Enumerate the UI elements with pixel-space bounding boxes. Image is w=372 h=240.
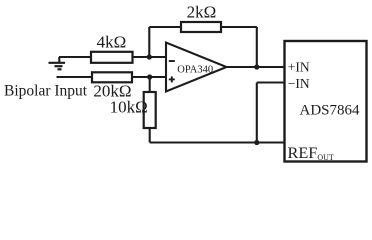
wire: feedback vertical down to op-amp output (256, 27, 258, 67)
node: inverting input junction (147, 54, 152, 59)
svg-text:ADS7864: ADS7864 (299, 102, 360, 118)
ADC U2 ADS7864 box (285, 41, 367, 162)
op-amp inverting input minus sign (169, 60, 175, 62)
svg-text:+IN: +IN (288, 60, 310, 75)
wire: op-amp output to ADS7864 +IN (226, 66, 285, 68)
wire: feedback top-right horizontal segment (221, 26, 257, 28)
wire: REFout bottom rail into ADS7864 (150, 141, 285, 143)
wire: feedback top-left horizontal segment (149, 26, 181, 28)
svg-text:OPA340: OPA340 (177, 65, 213, 76)
wire: vertical from non-inverting node down to 10k resistor top (149, 77, 151, 92)
svg-text:−IN: −IN (288, 76, 310, 91)
resistor R2 20kOhm body (92, 72, 132, 82)
resistor R3 2kOhm feedback body (181, 22, 221, 32)
resistor R4 10kOhm vertical body (144, 92, 156, 128)
node: REFout rail junction (254, 140, 259, 145)
svg-text:4kΩ: 4kΩ (97, 33, 127, 52)
wire: -IN horizontal stub into ADS7864 (257, 81, 285, 83)
wire: top input from ground to op-amp inverting input (59, 56, 166, 58)
wire: from 10k resistor bottom down to REFout rail (149, 128, 151, 143)
wire: vertical from -IN stub down to REFout rail (256, 83, 258, 143)
op-amp U1 OPA340 triangle (166, 43, 227, 92)
op-amp non-inverting input plus sign (169, 76, 175, 82)
ground (49, 57, 66, 69)
resistor R1 4kOhm body (91, 52, 133, 63)
svg-text:2kΩ: 2kΩ (187, 2, 217, 21)
node: non-inverting input junction (147, 74, 152, 79)
node: output/feedback junction (254, 64, 259, 69)
svg-text:Bipolar Input: Bipolar Input (4, 82, 88, 99)
wire: vertical from inverting-input node up to feedback resistor (148, 27, 150, 57)
wire: bottom input from Bipolar Input to op-amp non-inverting input (57, 76, 167, 78)
svg-text:10kΩ: 10kΩ (110, 97, 148, 116)
